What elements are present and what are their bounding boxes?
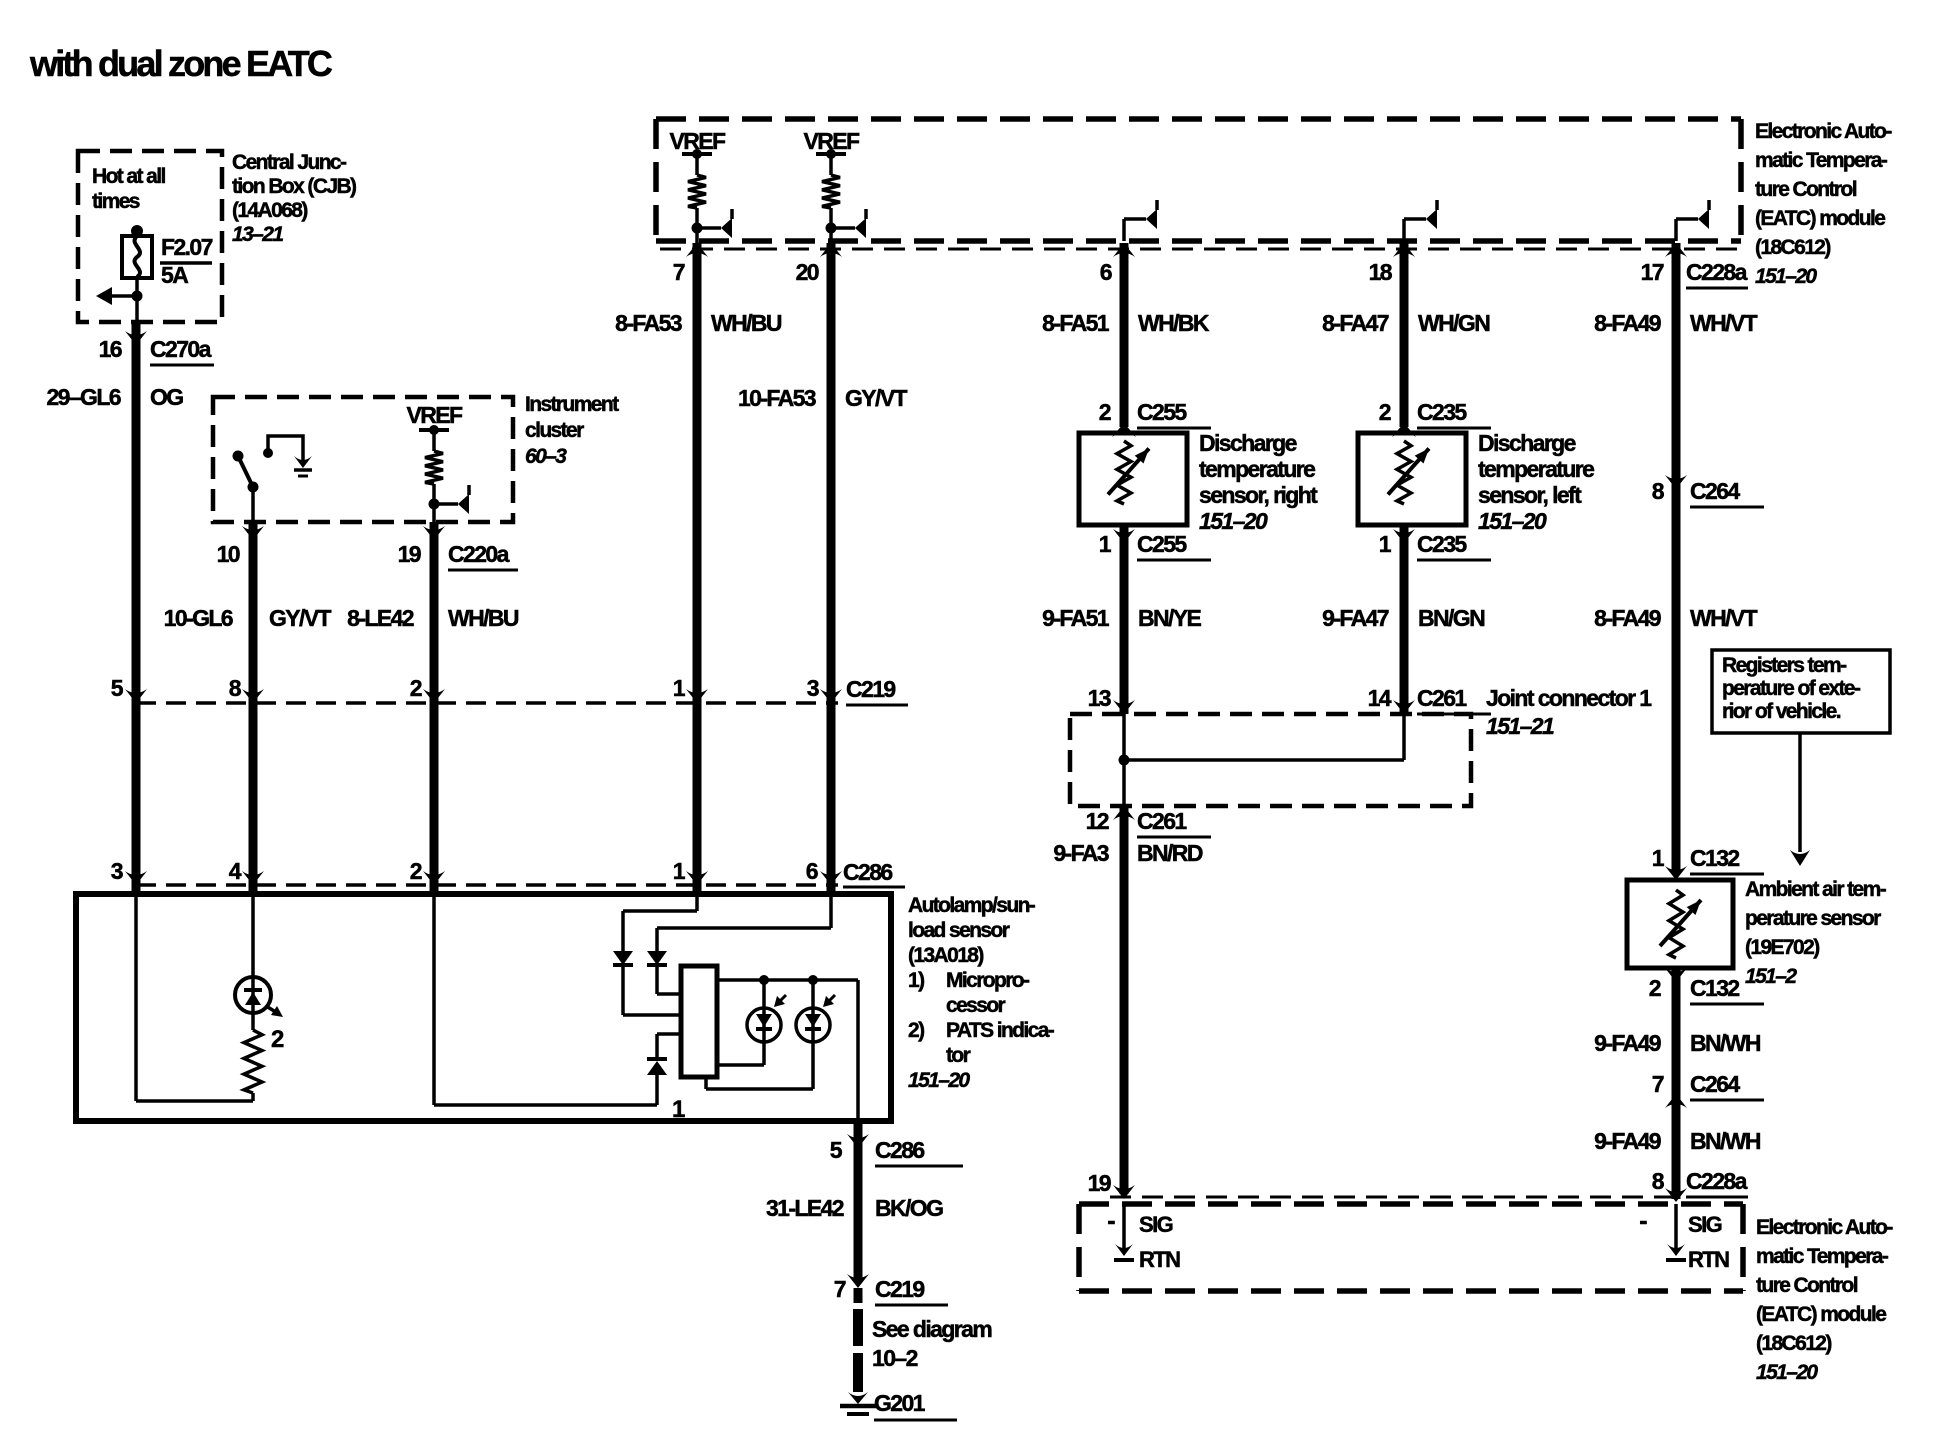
svg-text:C261: C261 [1137,808,1187,834]
svg-text:151–2: 151–2 [1745,965,1797,988]
wire 8-FA51 WH/BK pin6 to C255 [1120,243,1129,427]
svg-text:10-GL6: 10-GL6 [164,605,233,631]
label 1 / C132 [1652,845,1764,874]
Discharge temperature sensor right box [1079,433,1187,525]
svg-text:C286: C286 [843,859,892,885]
svg-text:times: times [92,190,140,213]
arrow at C219 pin 8 [242,689,264,703]
arrow at joint connector pin 13 [1113,700,1135,714]
svg-text:sensor, right: sensor, right [1199,482,1318,508]
label VREF right [804,128,860,154]
svg-text:Ambient air tem-: Ambient air tem- [1745,878,1887,901]
internal wire pin6 path [657,894,831,951]
arrow into C235 pin 2 [1392,423,1416,437]
svg-text:with dual zone EATC: with dual zone EATC [29,43,333,84]
svg-text:C228a: C228a [1686,259,1748,285]
connector line below EATC box [660,248,1740,251]
label 8-FA49 / WH/VT [1594,310,1757,336]
svg-text:Discharge: Discharge [1478,430,1576,456]
svg-text:Electronic Auto-: Electronic Auto- [1756,1216,1893,1239]
internal wire pin1 path [623,894,697,951]
label 7 / C219 bottom [834,1276,948,1305]
arrow at C132 pin 1 [1665,866,1687,880]
label Hot at all times [92,165,165,213]
flag arrow pin 18 inside EATC [1404,200,1437,241]
label Instrument cluster 60-3 [525,393,619,468]
svg-text:2: 2 [1099,399,1111,425]
svg-text:BN/RD: BN/RD [1137,840,1203,866]
svg-text:matic Tempera-: matic Tempera- [1755,149,1888,172]
svg-text:8: 8 [1652,1168,1665,1194]
svg-text:C132: C132 [1690,845,1739,871]
svg-text:load sensor: load sensor [908,919,1010,942]
svg-text:PATS indica-: PATS indica- [946,1019,1055,1042]
label 1 / C255 bottom [1099,531,1211,560]
arrow at C286 pin 1 [686,871,708,885]
svg-text:19: 19 [1088,1170,1111,1196]
svg-text:2: 2 [410,675,422,701]
label 1 / C235 bottom [1379,531,1491,560]
svg-text:8-FA49: 8-FA49 [1594,605,1661,631]
svg-text:Micropro-: Micropro- [946,969,1030,992]
svg-text:1: 1 [673,858,686,884]
wire w2 C219 to C286 [249,703,258,885]
label 10-FA53 / GY/VT [738,385,908,411]
svg-text:C255: C255 [1137,399,1187,425]
svg-text:RTN: RTN [1139,1247,1180,1272]
internal wire left (pin3 path) [136,894,253,1101]
svg-text:C255: C255 [1137,531,1187,557]
label 14 / C261 [1368,685,1491,714]
arrow at pin 19 bottom [1113,1185,1135,1199]
svg-text:Registers tem-: Registers tem- [1722,654,1847,677]
diode D2 (down) [647,951,681,994]
label 10-GL6 / GY/VT [164,605,332,631]
label VREF in cluster [407,402,463,428]
svg-text:2: 2 [1379,399,1391,425]
wire 8-FA49 WH/VT lower [1672,489,1681,874]
svg-text:WH/VT: WH/VT [1690,605,1758,631]
arrow at C219 pin 5 [125,689,147,703]
arrow at C219 pin 7 bottom [847,1274,869,1288]
Discharge temperature sensor left box [1358,433,1466,525]
svg-text:See diagram: See diagram [872,1316,992,1342]
wire 29-GL6 OG from CJB to C219 pin 5 [132,322,141,703]
svg-text:ture Control: ture Control [1756,1274,1858,1297]
svg-text:C219: C219 [846,676,895,702]
svg-text:Discharge: Discharge [1199,430,1297,456]
svg-text:13: 13 [1088,685,1111,711]
svg-text:C228a: C228a [1686,1168,1748,1194]
svg-text:matic Tempera-: matic Tempera- [1756,1245,1889,1268]
svg-text:F2.07: F2.07 [161,234,213,260]
ground G201 [840,1390,957,1420]
svg-text:G201: G201 [874,1390,926,1416]
svg-text:14: 14 [1368,685,1392,711]
svg-text:8-LE42: 8-LE42 [347,605,414,631]
wire 8-FA47 WH/GN pin18 to C235 [1400,243,1409,427]
svg-text:8-FA47: 8-FA47 [1322,310,1389,336]
svg-text:9-FA49: 9-FA49 [1594,1128,1661,1154]
arrow at pin 8 C228a bottom [1665,1188,1687,1202]
arrow up pin 17 [1665,243,1687,257]
svg-text:19: 19 [398,541,421,567]
svg-text:7: 7 [1652,1071,1664,1097]
label 13 [1088,685,1111,711]
Registers temperature callout box [1712,650,1890,733]
switch in instrument cluster [233,451,259,523]
svg-text:C264: C264 [1690,1071,1740,1097]
svg-text:(19E702): (19E702) [1745,936,1819,959]
arrow up pin 20 [820,243,842,257]
label 8 / C264 upper [1652,478,1764,507]
wire 31-LE42 BK/OG [854,1121,863,1282]
svg-text:3: 3 [111,858,123,884]
svg-text:WH/BK: WH/BK [1138,310,1210,336]
svg-text:1: 1 [672,1096,685,1123]
sunload photodiode left [747,980,786,1042]
VREF resistor in instrument cluster [419,425,469,514]
Joint connector 1 dashed outline [1070,714,1471,806]
svg-text:WH/VT: WH/VT [1690,310,1758,336]
arrow at C286 pin 2 [423,871,445,885]
svg-text:1: 1 [1099,531,1112,557]
callout arrow to ambient sensor [1790,733,1810,866]
connector line bottom C228a [1110,1196,1740,1199]
label 29-GL6 / OG [46,384,183,410]
label Autolamp block [908,894,1055,1092]
wire 10-FA53 GY/VT pin20 to C219 [827,243,836,703]
svg-text:cessor: cessor [946,994,1006,1017]
label Discharge temperature sensor left [1478,430,1594,534]
svg-text:VREF: VREF [407,402,463,428]
arrow at C219 pin 1 [686,689,708,703]
svg-text:1: 1 [1652,845,1665,871]
svg-text:tion Box (CJB): tion Box (CJB) [232,175,356,198]
svg-text:C235: C235 [1417,399,1467,425]
svg-text:20: 20 [796,259,819,285]
arrow at C264 pin 8 [1665,475,1687,489]
wire w5 stub into box [827,885,836,894]
svg-text:Central Junc-: Central Junc- [232,151,347,174]
svg-text:tor: tor [946,1044,971,1067]
svg-text:16: 16 [99,336,122,362]
VREF resistor left in EATC [682,149,732,238]
label 12 / C261 [1086,808,1211,837]
label Central Junction Box (CJB) (14A068) 13-21 [232,151,356,246]
thermistor ambient sensor [1660,890,1701,958]
microprocessor U1 rectangle [681,966,717,1077]
svg-text:6: 6 [806,858,818,884]
svg-text:5A: 5A [161,262,188,288]
arrow below box pin 5 [847,1134,869,1148]
arrow at C264 pin 7 [1665,1094,1687,1108]
thermistor left sensor [1388,441,1429,504]
dashed wire to ground [854,1288,863,1392]
svg-text:9-FA3: 9-FA3 [1053,840,1108,866]
svg-text:8-FA49: 8-FA49 [1594,310,1661,336]
VREF resistor right in EATC [816,149,866,238]
Ambient air temperature sensor box [1627,880,1733,968]
wire w3 C219 to C286 [430,703,439,885]
arrow at C286 pin 6 [820,871,842,885]
svg-text:C261: C261 [1417,685,1467,711]
label 2 / C235 top [1379,399,1491,428]
svg-text:OG: OG [150,384,183,410]
svg-text:WH/BU: WH/BU [448,605,519,631]
arrow below right sensor [1113,529,1135,543]
switch throw contact and chassis ground [263,436,312,476]
arrow at C286 pin 3 [125,871,147,885]
label 2 PATS indicator [271,1026,284,1053]
label 8-FA53 / WH/BU [615,310,782,336]
wire 9-FA51 BN/YE [1120,525,1129,714]
svg-text:rior of vehicle.: rior of vehicle. [1722,700,1841,723]
svg-text:sensor, left: sensor, left [1478,482,1582,508]
svg-text:temperature: temperature [1199,456,1315,482]
arrow pin 19 below cluster [423,526,445,540]
label 9-FA49 / BN/WH lower [1594,1128,1761,1154]
arrow below joint connector pin 12 [1113,806,1135,820]
svg-text:17: 17 [1641,259,1664,285]
wire microprocessor to photodiodes [717,975,858,1121]
flag arrow pin 17 inside EATC [1676,200,1709,241]
svg-text:cluster: cluster [525,419,584,442]
arrow test-point inside CJB [96,287,143,305]
wire fuse to CJB bottom [135,278,139,322]
svg-text:13–21: 13–21 [232,223,283,246]
resistor below PATS lamp [244,1013,262,1101]
svg-text:18: 18 [1369,259,1393,285]
svg-text:2: 2 [271,1026,284,1053]
label See diagram 10-2 [872,1316,992,1371]
fuse F2.07 5A [122,225,213,288]
connector C270a arrow pin 16 [125,331,147,345]
EATC module dashed outline bottom [1079,1204,1743,1291]
svg-text:Hot at all: Hot at all [92,165,165,188]
svg-text:(18C612): (18C612) [1755,236,1830,259]
arrow below left sensor [1393,529,1415,543]
arrow up pin 6 [1113,243,1135,257]
label C286 row [843,859,905,887]
svg-text:5: 5 [830,1137,843,1163]
pin labels C286 row [111,858,818,884]
svg-text:Instrument: Instrument [525,393,619,416]
svg-text:12: 12 [1086,808,1109,834]
svg-text:BN/GN: BN/GN [1418,605,1485,631]
wire 9-FA47 BN/GN [1400,525,1409,714]
svg-text:151–21: 151–21 [1486,713,1554,739]
svg-text:C286: C286 [875,1137,924,1163]
svg-text:BK/OG: BK/OG [875,1195,943,1221]
SIG RTN left ground [1114,1204,1134,1260]
svg-text:BN/WH: BN/WH [1690,1128,1761,1154]
label 9-FA3 / BN/RD [1053,840,1202,866]
joint connector internal wires [1119,714,1405,806]
svg-text:1): 1) [908,969,924,992]
svg-text:(14A068): (14A068) [232,199,307,222]
label C228a pin 17 [1686,259,1748,288]
pin labels top row [673,259,1664,285]
svg-text:31-LE42: 31-LE42 [766,1195,844,1221]
svg-text:60–3: 60–3 [525,445,567,468]
wire 10-GL6 GY/VT cluster to C219 pin 8 [249,522,258,703]
svg-text:151–20: 151–20 [1478,508,1547,534]
svg-text:(EATC) module: (EATC) module [1755,207,1885,230]
label 16 / C270a [99,336,214,365]
svg-text:2: 2 [410,858,422,884]
label 8 / C228a bottom [1652,1168,1748,1197]
internal wire pin2 path [434,894,657,1105]
svg-text:BN/WH: BN/WH [1690,1030,1761,1056]
svg-text:9-FA49: 9-FA49 [1594,1030,1661,1056]
svg-text:Electronic Auto-: Electronic Auto- [1755,120,1892,143]
svg-text:SIG: SIG [1688,1212,1722,1237]
svg-text:10–2: 10–2 [872,1345,918,1371]
label 8-LE42 / WH/BU [347,605,519,631]
label 2 / C132 [1649,975,1764,1004]
label Joint connector 1 151-21 [1486,685,1652,739]
svg-text:8-FA51: 8-FA51 [1042,310,1110,336]
arrow at C286 pin 4 [242,871,264,885]
arrow at joint connector pin 14 [1393,700,1415,714]
wire 9-FA3 BN/RD [1120,806,1129,1194]
wire right photodiode to microprocessor [706,1042,813,1089]
label 1 microprocessor [672,1096,685,1123]
wire 8-LE42 WH/BU cluster to C219 pin 2 [430,522,439,703]
wire 9-FA49 BN/WH upper [1672,968,1681,1094]
arrow below ambient sensor [1665,968,1687,982]
diode D1 (down) [613,951,681,1015]
label - SIG RTN right [1639,1207,1729,1272]
label Ambient air temperature sensor [1745,878,1887,988]
label 7 / C264 lower [1652,1071,1764,1100]
svg-text:3: 3 [807,675,819,701]
wire w5 C219 to C286 [827,703,836,885]
svg-text:RTN: RTN [1688,1247,1729,1272]
Autolamp sunload sensor box outline [76,894,891,1121]
svg-text:C132: C132 [1690,975,1739,1001]
svg-text:C220a: C220a [448,541,510,567]
title text 'with dual zone EATC' [29,43,333,84]
arrow up pin 7 [686,243,708,257]
label C219 row [846,676,908,705]
label VREF left [670,128,726,154]
SIG RTN right ground [1666,1204,1686,1260]
svg-text:Autolamp/sun-: Autolamp/sun- [908,894,1036,917]
svg-text:C219: C219 [875,1276,924,1302]
label 9-FA47 / BN/GN [1322,605,1485,631]
svg-text:ture Control: ture Control [1755,178,1857,201]
svg-text:perature of exte-: perature of exte- [1722,677,1861,700]
svg-text:(EATC) module: (EATC) module [1756,1303,1886,1326]
svg-text:8: 8 [229,675,242,701]
svg-text:1: 1 [1379,531,1392,557]
svg-text:7: 7 [834,1276,846,1302]
PATS indicator lamp circle [235,977,283,1017]
svg-text:9-FA51: 9-FA51 [1042,605,1110,631]
Central Junction Box (CJB) dashed outline [78,151,222,322]
svg-text:perature sensor: perature sensor [1745,907,1881,930]
svg-text:6: 6 [1100,259,1112,285]
wire w2 into autolamp box [249,885,258,894]
svg-text:151–20: 151–20 [908,1069,970,1092]
svg-text:10-FA53: 10-FA53 [738,385,816,411]
wire VREF right to box edge [829,228,833,249]
svg-text:151–20: 151–20 [1199,508,1268,534]
svg-text:2: 2 [1649,975,1661,1001]
label 8-FA47 / WH/GN [1322,310,1490,336]
svg-text:GY/VT: GY/VT [845,385,908,411]
svg-text:1: 1 [673,675,686,701]
svg-text:WH/GN: WH/GN [1418,310,1490,336]
svg-text:BN/YE: BN/YE [1138,605,1202,631]
wire left photodiode to microprocessor [717,1042,764,1065]
svg-text:10: 10 [217,541,240,567]
wire w4 C219 to C286 [693,703,702,885]
wire 8-FA49 WH/VT pin17 down [1672,243,1681,489]
pin labels C219 row [111,675,819,701]
svg-text:8: 8 [1652,478,1665,504]
label 9-FA51 / BN/YE [1042,605,1201,631]
svg-text:C270a: C270a [150,336,212,362]
wire VREF left to box edge [695,228,699,249]
svg-text:Joint connector 1: Joint connector 1 [1486,685,1652,711]
label 10 / 19 / C220a [217,541,518,570]
label EATC module bottom right [1756,1216,1893,1384]
svg-text:WH/BU: WH/BU [711,310,782,336]
wire w3 into autolamp box [430,885,439,894]
label 2 / C255 top [1099,399,1211,428]
label Discharge temperature sensor right [1199,430,1318,534]
arrow at C219 pin 2 [423,689,445,703]
arrow up pin 18 [1393,243,1415,257]
svg-text:(13A018): (13A018) [908,944,983,967]
wire 8-FA53 WH/BU pin7 to C219 [693,243,702,703]
internal wire to PATS lamp [251,894,255,977]
label EATC module top right [1755,120,1892,288]
svg-text:9-FA47: 9-FA47 [1322,605,1389,631]
EATC module dashed outline top [656,119,1741,241]
sunload photodiode right [796,980,835,1042]
svg-text:(18C612): (18C612) [1756,1332,1831,1355]
thermistor right sensor [1108,441,1149,504]
Instrument cluster dashed outline [213,397,513,522]
connector line C286 [136,883,838,887]
svg-text:29–GL6: 29–GL6 [46,384,120,410]
svg-text:C235: C235 [1417,531,1467,557]
label 5 / C286 exit [830,1137,963,1166]
svg-text:5: 5 [111,675,124,701]
svg-text:SIG: SIG [1139,1212,1173,1237]
svg-text:151–20: 151–20 [1756,1361,1818,1384]
svg-text:2): 2) [908,1019,924,1042]
label 19 [1088,1170,1111,1196]
arrow pin 10 below cluster [242,526,264,540]
label - SIG RTN left [1107,1207,1180,1272]
label 8-FA49 / WH/VT second [1594,605,1757,631]
svg-text:temperature: temperature [1478,456,1594,482]
label 31-LE42 / BK/OG [766,1195,943,1221]
wire w1 C219 to C286 [132,703,141,885]
wire 9-FA49 BN/WH lower [1672,1094,1681,1199]
svg-text:8-FA53: 8-FA53 [615,310,682,336]
wire w1 into autolamp box [132,885,141,894]
svg-text:7: 7 [673,259,685,285]
connector line C219 [136,701,838,705]
svg-text:C264: C264 [1690,478,1740,504]
svg-text:4: 4 [229,858,242,884]
